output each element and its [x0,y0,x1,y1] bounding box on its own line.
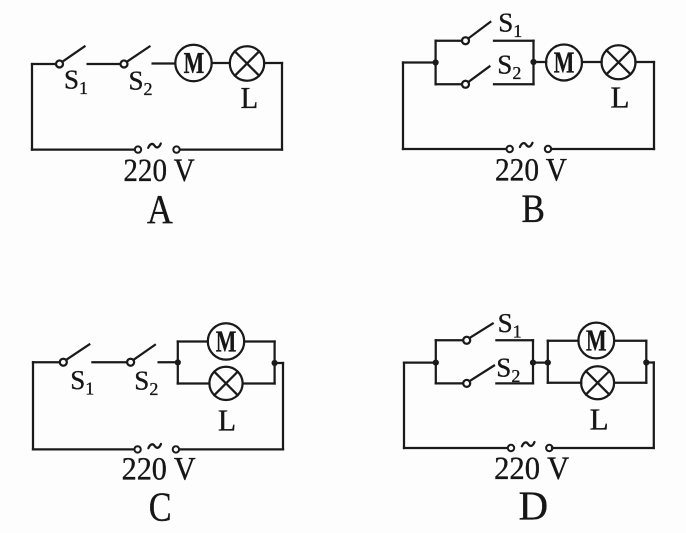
svg-text:S2: S2 [497,50,521,84]
wire A lamp to right corner [264,62,282,64]
svg-text:M: M [586,323,607,358]
wire B bottom branch lead [436,83,462,85]
wire B top branch right [494,40,534,42]
svg-text:S1: S1 [498,308,522,342]
motor M (circuit B) [546,45,582,81]
AC source terminals (circuit A) [135,146,180,152]
svg-text:L: L [218,402,236,437]
wire B right vertical [653,62,655,149]
svg-text:M: M [554,45,575,80]
wire A top-left segment [32,63,55,65]
node C left junction [175,359,181,365]
wire D ML top branch right [614,340,646,342]
wire D between junctions [533,361,548,363]
svg-text:220 V: 220 V [123,153,195,189]
switch S2 (circuit B) [462,67,489,88]
lamp L (circuit C) [209,367,242,400]
svg-text:S1: S1 [64,65,88,99]
motor M (circuit A) [175,45,211,81]
wire C top branch right [244,340,274,342]
wire C bottom branch right [243,382,275,384]
wire B box right vertical [532,41,534,85]
wire D ML bottom branch right [614,382,646,384]
switch S1 (circuit A) [56,47,85,68]
wire B motor to lamp [582,61,602,63]
wire C bottom right segment [179,448,283,450]
svg-text:S2: S2 [134,366,158,400]
wire C left vertical [32,362,34,449]
wire C between S1 and S2 [92,361,126,363]
wire D bottom left segment [404,447,507,449]
svg-text:S1: S1 [498,8,522,42]
node B right junction [530,59,536,65]
wire C right vertical [282,363,284,449]
wire D ML bottom branch left [548,382,582,384]
wire B bottom right segment [551,148,654,150]
svg-text:M: M [184,45,205,80]
wire C top branch left [178,340,208,342]
wire D bottom branch right [496,382,533,384]
node D ML box left junction [545,360,551,366]
wire C node to outer right [275,362,283,364]
AC tilde (circuit B) [520,143,533,147]
motor M (circuit D) [578,323,614,359]
wire D bottom branch lead [436,382,463,384]
svg-text:A: A [147,186,173,232]
svg-text:220 V: 220 V [122,452,196,488]
wire B bottom branch right [494,83,534,85]
wire B left vertical [402,63,404,150]
motor M (circuit C) [208,323,244,359]
wire C box right vertical [273,342,275,384]
wire C top-left segment [33,361,60,363]
lamp L (circuit A) [230,46,264,80]
wire C box left vertical [177,342,179,384]
svg-text:L: L [611,80,630,115]
wire B box left vertical [434,41,436,85]
wire B bottom left segment [403,148,506,150]
wire B node to motor [534,61,547,63]
wire D top branch right [496,339,533,341]
wire D top branch lead [436,339,463,341]
wire C bottom left segment [33,448,134,450]
wire D ML box left vertical [547,341,549,383]
svg-text:S2: S2 [129,66,153,100]
lamp L (circuit B) [602,45,636,79]
wire C S2 to node [159,361,178,363]
wire C bottom branch left [178,382,210,384]
AC tilde (circuit A) [148,144,161,148]
wire A right vertical [281,63,283,150]
node D right junction [643,359,649,365]
wire D switch box left vertical [435,340,437,383]
wire A bottom left segment [32,148,135,150]
lamp L (circuit D) [581,366,614,399]
wire A between S1 and S2 [88,63,121,65]
svg-text:M: M [216,324,237,359]
wire D ML box right vertical [645,341,647,383]
wire A left vertical [31,64,33,150]
svg-text:B: B [522,186,545,231]
AC tilde (circuit D) [522,442,535,446]
wire B lead to node [403,61,436,63]
switch S2 (circuit D) [463,366,494,387]
svg-text:C: C [149,483,172,529]
svg-text:220 V: 220 V [495,152,567,188]
wire A between S2 and motor [153,62,176,64]
AC source terminals (circuit C) [134,446,179,452]
wire A bottom right segment [180,148,282,150]
switch S2 (circuit C) [127,345,155,366]
wire D switch box right vertical [532,340,534,383]
wire D ML top branch left [548,340,579,342]
node B left junction [433,59,439,65]
wire B top branch lead [436,40,462,42]
node C right junction [272,360,278,366]
svg-text:L: L [590,401,609,436]
svg-text:D: D [519,482,549,528]
switch S1 (circuit B) [462,22,490,44]
wire D right vertical [653,363,655,449]
wire D bottom right segment [552,447,654,449]
node D left junction [433,360,439,366]
switch S1 (circuit D) [463,324,493,344]
svg-text:S2: S2 [496,352,520,386]
switch S1 (circuit C) [60,344,90,365]
wire D left vertical [403,363,405,448]
wire D lead to node [404,361,436,363]
wire D node to outer right [646,361,654,363]
svg-text:S1: S1 [70,365,94,399]
wire A between motor and lamp [212,62,230,64]
node D switch box right junction [530,360,536,366]
svg-text:L: L [241,80,259,115]
AC source terminals (circuit D) [508,445,553,451]
AC source terminals (circuit B) [507,146,552,152]
wire B lamp to right corner [636,61,655,63]
AC tilde (circuit C) [148,444,161,448]
switch S2 (circuit A) [121,47,150,68]
